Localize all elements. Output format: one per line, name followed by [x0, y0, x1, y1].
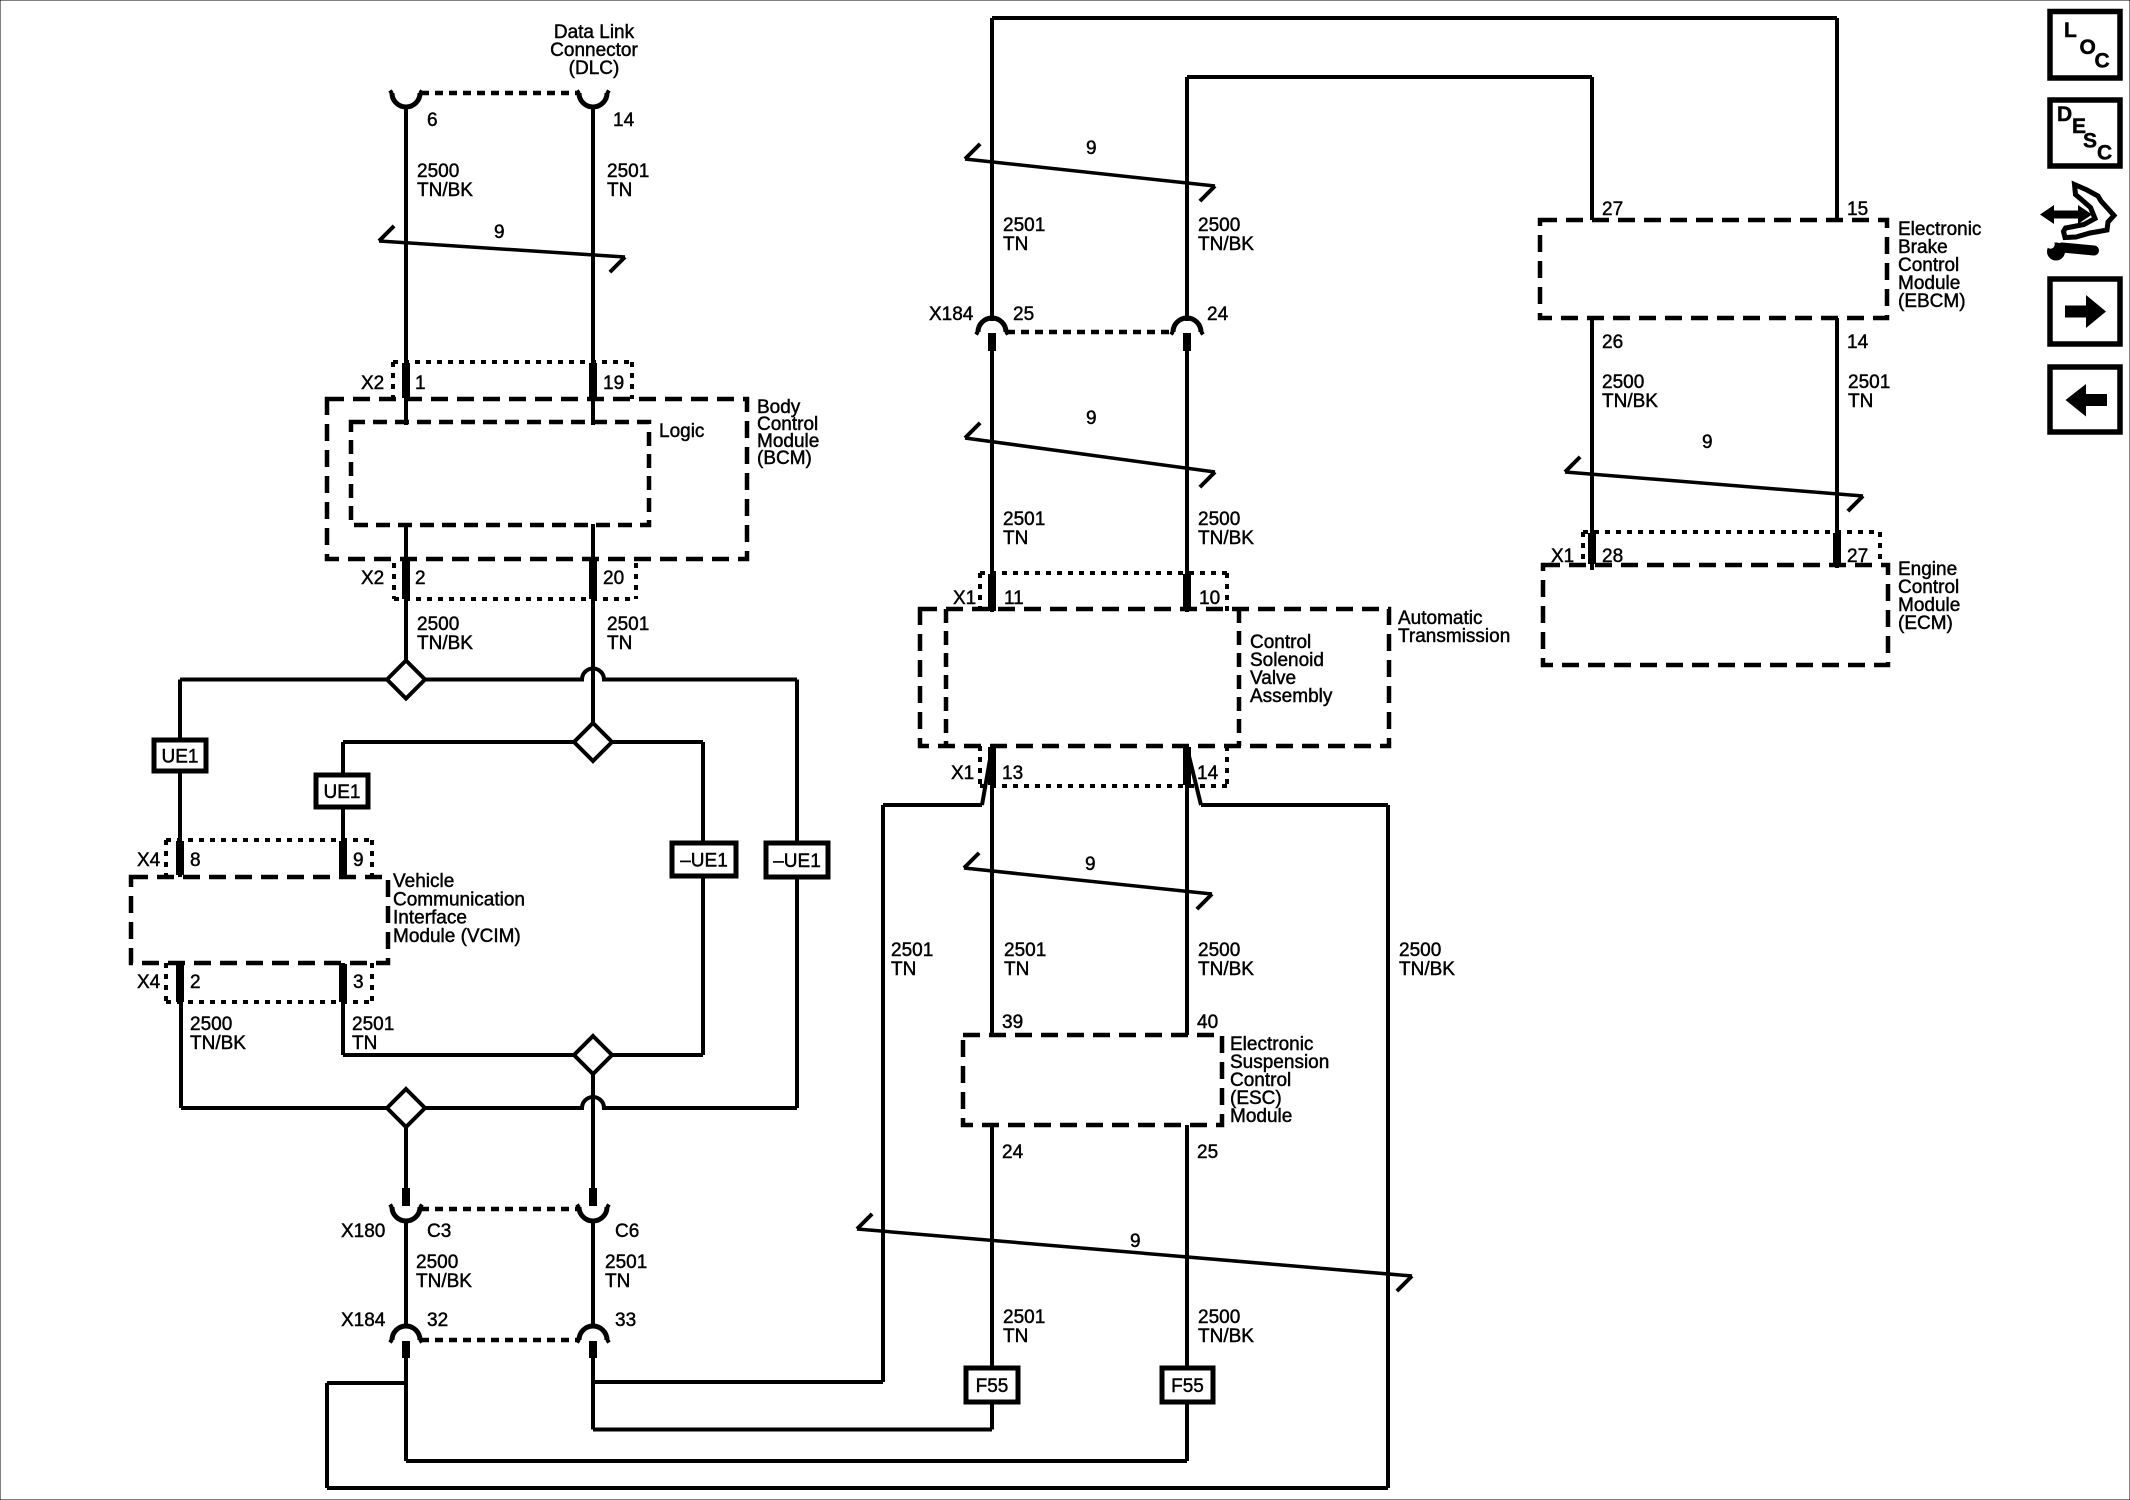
svg-text:2501: 2501 — [607, 614, 649, 635]
svg-text:9: 9 — [1085, 854, 1096, 875]
svg-text:9: 9 — [1130, 1231, 1141, 1252]
svg-text:2500: 2500 — [416, 1252, 458, 1273]
svg-text:27: 27 — [1602, 199, 1623, 220]
svg-text:2501: 2501 — [607, 161, 649, 182]
svg-text:9: 9 — [494, 222, 505, 243]
svg-text:2500: 2500 — [1198, 1307, 1240, 1328]
svg-text:1: 1 — [415, 373, 426, 394]
svg-text:C: C — [2097, 142, 2112, 165]
svg-text:Module: Module — [1230, 1106, 1292, 1127]
svg-text:27: 27 — [1847, 546, 1868, 567]
svg-text:X2: X2 — [361, 373, 384, 394]
svg-text:TN: TN — [1003, 1326, 1028, 1347]
svg-text:(BCM): (BCM) — [757, 448, 812, 469]
svg-text:24: 24 — [1207, 304, 1229, 325]
svg-text:X184: X184 — [341, 1310, 386, 1331]
svg-text:TN/BK: TN/BK — [1602, 391, 1658, 412]
svg-text:33: 33 — [615, 1310, 636, 1331]
svg-text:2501: 2501 — [605, 1252, 647, 1273]
svg-text:X2: X2 — [361, 568, 384, 589]
svg-text:X1: X1 — [1551, 546, 1574, 567]
svg-text:X184: X184 — [929, 304, 974, 325]
svg-text:2: 2 — [190, 972, 201, 993]
svg-text:–UE1: –UE1 — [773, 851, 821, 872]
svg-text:TN/BK: TN/BK — [1399, 959, 1455, 980]
svg-text:10: 10 — [1199, 588, 1220, 609]
svg-text:UE1: UE1 — [162, 747, 199, 768]
svg-text:24: 24 — [1002, 1142, 1024, 1163]
svg-text:25: 25 — [1013, 304, 1034, 325]
svg-text:(ECM): (ECM) — [1898, 613, 1953, 634]
svg-text:UE1: UE1 — [324, 782, 361, 803]
svg-text:28: 28 — [1602, 546, 1623, 567]
svg-text:2500: 2500 — [1399, 940, 1441, 961]
svg-text:40: 40 — [1197, 1012, 1218, 1033]
svg-text:19: 19 — [603, 373, 624, 394]
svg-text:25: 25 — [1197, 1142, 1218, 1163]
svg-text:(EBCM): (EBCM) — [1898, 291, 1966, 312]
svg-text:TN/BK: TN/BK — [417, 180, 473, 201]
svg-text:Assembly: Assembly — [1250, 686, 1333, 707]
svg-text:8: 8 — [190, 850, 201, 871]
svg-text:TN/BK: TN/BK — [1198, 234, 1254, 255]
svg-text:O: O — [2080, 36, 2096, 59]
svg-text:TN/BK: TN/BK — [416, 1271, 472, 1292]
svg-text:14: 14 — [1197, 763, 1219, 784]
svg-text:TN: TN — [607, 180, 632, 201]
svg-text:X1: X1 — [951, 763, 974, 784]
svg-text:9: 9 — [353, 850, 364, 871]
svg-text:C3: C3 — [427, 1221, 451, 1242]
svg-text:9: 9 — [1086, 408, 1097, 429]
svg-text:TN/BK: TN/BK — [1198, 959, 1254, 980]
svg-text:TN: TN — [1003, 528, 1028, 549]
svg-text:2500: 2500 — [190, 1014, 232, 1035]
svg-text:–UE1: –UE1 — [680, 851, 728, 872]
svg-text:2501: 2501 — [1848, 372, 1890, 393]
svg-text:X1: X1 — [953, 588, 976, 609]
svg-text:TN: TN — [1003, 234, 1028, 255]
svg-text:2500: 2500 — [1198, 215, 1240, 236]
svg-text:9: 9 — [1702, 432, 1713, 453]
svg-text:2501: 2501 — [1003, 1307, 1045, 1328]
svg-text:TN/BK: TN/BK — [190, 1033, 246, 1054]
svg-text:Transmission: Transmission — [1398, 626, 1510, 647]
svg-text:S: S — [2083, 130, 2097, 153]
svg-text:TN: TN — [352, 1033, 377, 1054]
svg-text:2501: 2501 — [352, 1014, 394, 1035]
svg-text:F55: F55 — [1171, 1376, 1204, 1397]
svg-text:F55: F55 — [976, 1376, 1009, 1397]
svg-text:X4: X4 — [137, 972, 161, 993]
svg-text:L: L — [2064, 19, 2077, 42]
svg-text:39: 39 — [1002, 1012, 1023, 1033]
svg-text:Module (VCIM): Module (VCIM) — [393, 926, 521, 947]
svg-text:TN: TN — [605, 1271, 630, 1292]
svg-text:C6: C6 — [615, 1221, 639, 1242]
svg-text:6: 6 — [427, 110, 438, 131]
svg-text:15: 15 — [1847, 199, 1868, 220]
svg-text:2500: 2500 — [1602, 372, 1644, 393]
svg-text:TN: TN — [1848, 391, 1873, 412]
svg-text:2501: 2501 — [1004, 940, 1046, 961]
svg-text:2: 2 — [415, 568, 426, 589]
svg-text:32: 32 — [427, 1310, 448, 1331]
svg-text:14: 14 — [613, 110, 635, 131]
svg-text:(DLC): (DLC) — [569, 58, 620, 79]
svg-text:9: 9 — [1086, 138, 1097, 159]
svg-text:TN: TN — [891, 959, 916, 980]
svg-text:20: 20 — [603, 568, 624, 589]
svg-text:2500: 2500 — [1198, 509, 1240, 530]
svg-text:2501: 2501 — [891, 940, 933, 961]
svg-text:TN: TN — [1004, 959, 1029, 980]
svg-text:2501: 2501 — [1003, 215, 1045, 236]
svg-text:11: 11 — [1004, 588, 1024, 609]
svg-text:X4: X4 — [137, 850, 161, 871]
svg-text:14: 14 — [1847, 332, 1869, 353]
svg-text:Logic: Logic — [659, 421, 704, 442]
svg-text:TN/BK: TN/BK — [1198, 528, 1254, 549]
svg-text:D: D — [2057, 103, 2072, 126]
svg-text:TN: TN — [607, 633, 632, 654]
svg-text:C: C — [2095, 50, 2110, 73]
svg-text:TN/BK: TN/BK — [417, 633, 473, 654]
svg-text:26: 26 — [1602, 332, 1623, 353]
svg-text:13: 13 — [1002, 763, 1023, 784]
svg-text:3: 3 — [353, 972, 364, 993]
svg-text:X180: X180 — [341, 1221, 385, 1242]
svg-text:2500: 2500 — [1198, 940, 1240, 961]
svg-text:2500: 2500 — [417, 161, 459, 182]
svg-text:TN/BK: TN/BK — [1198, 1326, 1254, 1347]
svg-text:2501: 2501 — [1003, 509, 1045, 530]
svg-text:2500: 2500 — [417, 614, 459, 635]
